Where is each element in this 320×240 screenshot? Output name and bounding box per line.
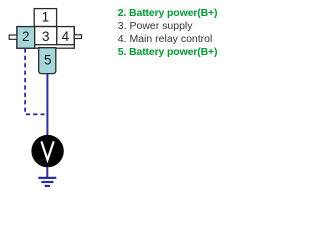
ground bbox=[38, 178, 56, 186]
connector C1 body middle row bbox=[17, 27, 74, 49]
voltmeter V1 bbox=[31, 135, 63, 167]
svg-text:5. Battery power(B+): 5. Battery power(B+) bbox=[118, 46, 218, 58]
legend line 4: Main relay control bbox=[118, 33, 213, 45]
svg-text:5: 5 bbox=[44, 52, 52, 67]
svg-text:2. Battery power(B+): 2. Battery power(B+) bbox=[118, 7, 218, 19]
legend line 2: Battery power(B+) bbox=[118, 7, 218, 19]
svg-text:2: 2 bbox=[22, 29, 30, 44]
connector C1 pin 1 bbox=[34, 9, 56, 27]
svg-text:1: 1 bbox=[42, 10, 50, 25]
connector C1 pin 3 bbox=[35, 27, 57, 45]
legend line 5: Battery power(B+) bbox=[118, 46, 218, 58]
wire from pin 5 to voltmeter bbox=[46, 74, 48, 136]
connector C1 pin 2 bbox=[17, 27, 35, 49]
connector C1 pin 4 bbox=[57, 27, 74, 45]
connector C1 left tab bbox=[9, 35, 17, 39]
connector C1 right tab bbox=[74, 35, 81, 39]
legend line 3: Power supply bbox=[118, 20, 193, 32]
svg-text:3. Power supply: 3. Power supply bbox=[118, 20, 193, 32]
svg-text:3: 3 bbox=[42, 29, 50, 44]
wire dashed from pin 2 to node A bbox=[25, 48, 44, 114]
svg-text:4. Main relay control: 4. Main relay control bbox=[118, 33, 213, 45]
svg-text:4: 4 bbox=[62, 29, 70, 44]
connector C1 pin 5 bbox=[39, 48, 56, 74]
wire from voltmeter to ground bbox=[46, 167, 48, 178]
